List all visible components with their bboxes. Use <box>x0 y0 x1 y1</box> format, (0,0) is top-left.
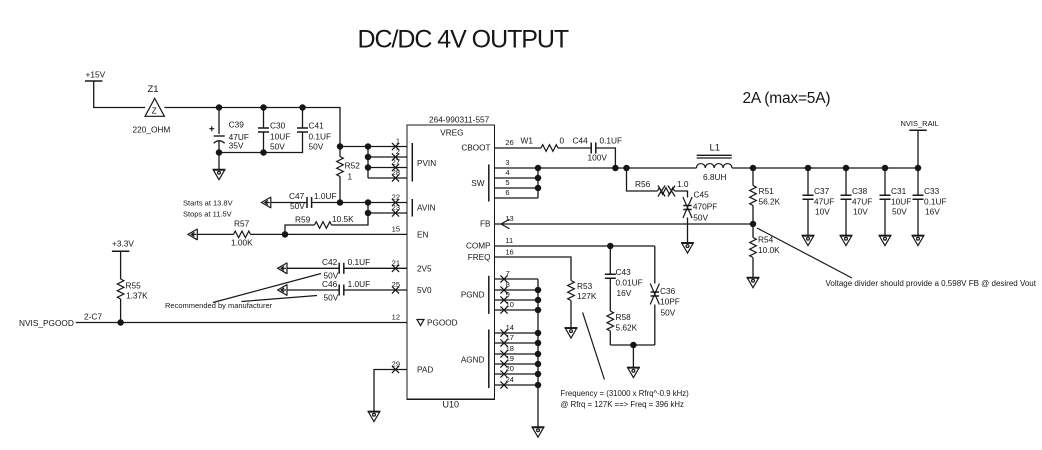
svg-text:50V: 50V <box>270 142 285 152</box>
junction R52 bottom <box>337 199 344 206</box>
svg-text:50V: 50V <box>693 213 708 223</box>
wire AVIN bus <box>332 203 369 226</box>
svg-text:C31: C31 <box>891 186 907 196</box>
svg-text:C39: C39 <box>229 120 245 130</box>
svg-text:C38: C38 <box>852 186 868 196</box>
svg-text:R53: R53 <box>577 281 593 291</box>
svg-text:R56: R56 <box>635 179 651 189</box>
svg-text:2: 2 <box>396 147 400 156</box>
wire C37 top leg <box>807 168 809 195</box>
pin group bar PGND <box>488 276 490 314</box>
svg-text:6: 6 <box>505 188 509 197</box>
pin group bar SW <box>488 165 490 202</box>
svg-text:24: 24 <box>506 375 514 384</box>
capacitor C30 <box>258 128 269 132</box>
junction C38 top <box>843 165 850 172</box>
wire comp bottom bus <box>610 344 655 346</box>
wire R54 to ground <box>752 258 754 278</box>
svg-text:1: 1 <box>348 172 353 182</box>
svg-text:SW: SW <box>471 179 484 188</box>
port arrow C42 row <box>278 263 287 274</box>
svg-text:264-990311-557: 264-990311-557 <box>429 115 490 125</box>
wire C30 leg top <box>263 108 265 129</box>
wire C45 to ground <box>687 218 689 243</box>
junction SW bus pin5 <box>535 185 542 192</box>
wire R58 to bottom bus <box>609 331 611 345</box>
wire C39 to ground <box>218 153 220 170</box>
svg-text:PVIN: PVIN <box>417 159 436 168</box>
svg-text:10.0K: 10.0K <box>758 245 780 255</box>
wire comp bus to ground <box>632 345 634 367</box>
svg-text:0.1UF: 0.1UF <box>348 257 371 267</box>
svg-text:10V: 10V <box>853 207 868 217</box>
capacitor C36 (DNI) <box>650 284 659 305</box>
no-connect X pin10 <box>500 306 507 313</box>
svg-text:6.8UH: 6.8UH <box>703 172 727 182</box>
pointer line voltage divider <box>757 228 852 278</box>
svg-text:56.2K: 56.2K <box>759 197 781 207</box>
svg-text:C43: C43 <box>616 267 632 277</box>
wire R59 to EN <box>285 225 315 234</box>
wire SW to R56 <box>627 168 658 191</box>
svg-text:1: 1 <box>396 137 400 146</box>
svg-text:EN: EN <box>417 231 428 240</box>
no-connect X pin9 <box>500 296 507 303</box>
svg-text:12: 12 <box>392 313 400 322</box>
svg-text:R59: R59 <box>295 215 311 225</box>
wire R52 bottom to AVIN row <box>339 177 341 203</box>
svg-text:16: 16 <box>505 247 513 256</box>
no-connect X pin25 <box>392 286 399 293</box>
capacitor C39 (polarized) <box>209 126 224 143</box>
junction gnd bus pin10 <box>535 307 542 314</box>
svg-text:50V: 50V <box>290 201 305 211</box>
svg-text:35V: 35V <box>229 141 244 151</box>
wire R56 to C45 <box>675 191 688 198</box>
svg-text:Frequency = (31000 x Rfrq^-0.9: Frequency = (31000 x Rfrq^-0.9 kHz) <box>561 389 690 398</box>
no-connect X pin17 <box>500 339 507 346</box>
ground below PAD <box>368 411 381 421</box>
svg-text:10UF: 10UF <box>891 197 911 207</box>
wire C39 leg top <box>218 108 220 135</box>
svg-text:@ Rfrq = 127K ==> Freq = 396 k: @ Rfrq = 127K ==> Freq = 396 kHz <box>561 400 685 409</box>
no-connect X pin19 <box>500 360 507 367</box>
svg-text:C46: C46 <box>322 279 338 289</box>
port arrow EN row <box>188 229 197 240</box>
svg-text:PAD: PAD <box>417 366 433 375</box>
svg-text:47UF: 47UF <box>814 197 834 207</box>
svg-text:47UF: 47UF <box>852 197 872 207</box>
svg-text:11: 11 <box>505 236 513 245</box>
svg-text:470PF: 470PF <box>693 202 717 212</box>
wire gnd bus <box>537 279 539 427</box>
ground below R53 <box>565 328 578 338</box>
wire R52 top leg <box>339 147 341 157</box>
wire C30 leg bottom <box>263 132 265 153</box>
capacitor C33 <box>913 195 924 199</box>
svg-text:19: 19 <box>506 354 514 363</box>
no-connect X pin23 <box>392 209 399 216</box>
port arrow C47 row <box>262 197 271 208</box>
capacitor C43 <box>605 274 616 278</box>
wire NVIS_PGOOD to pin12 <box>76 322 407 324</box>
svg-text:5.62K: 5.62K <box>616 323 638 333</box>
capacitor C46 <box>339 285 344 296</box>
wire C42 to pin21 <box>344 267 407 269</box>
svg-text:15: 15 <box>392 225 400 234</box>
wire pin28 row <box>368 177 407 179</box>
no-connect X pin21 <box>392 265 399 272</box>
svg-text:0.1UF: 0.1UF <box>924 197 947 207</box>
wire FB row <box>495 223 754 225</box>
svg-text:NVIS_PGOOD: NVIS_PGOOD <box>19 318 74 328</box>
svg-text:C41: C41 <box>309 121 325 131</box>
wire C33 top leg <box>917 168 919 195</box>
junction C30 bottom <box>260 149 267 156</box>
svg-text:COMP: COMP <box>466 242 491 251</box>
ground below C38 <box>840 235 853 245</box>
svg-text:10.5K: 10.5K <box>332 214 354 224</box>
svg-text:3: 3 <box>505 158 509 167</box>
wire L1 to NVIS_RAIL <box>732 167 918 169</box>
junction comp ground <box>630 342 637 349</box>
ground below C39 <box>213 170 226 180</box>
wire pin7 row <box>495 278 539 280</box>
svg-text:Starts at 13.8V: Starts at 13.8V <box>183 199 233 208</box>
svg-text:8: 8 <box>506 280 510 289</box>
svg-text:23: 23 <box>392 203 400 212</box>
wire pin24 row <box>495 384 539 386</box>
wire C41 leg top <box>302 108 304 129</box>
svg-text:C42: C42 <box>322 257 338 267</box>
svg-text:14: 14 <box>506 323 514 332</box>
junction R52 top pin1 row <box>337 143 344 150</box>
power symbol NVIS_RAIL <box>909 129 926 131</box>
pointer line to C46 <box>242 296 318 302</box>
junction C30 top <box>260 104 267 111</box>
svg-text:2-C7: 2-C7 <box>84 312 102 322</box>
capacitor C41 <box>297 128 308 132</box>
svg-text:L1: L1 <box>710 143 721 154</box>
wire pin10 row <box>495 309 539 311</box>
svg-text:10PF: 10PF <box>660 297 680 307</box>
wire R54 top leg <box>752 224 754 238</box>
svg-text:7: 7 <box>506 269 510 278</box>
wire pin17 row <box>495 342 539 344</box>
resistor R55 <box>117 279 124 299</box>
svg-text:W1: W1 <box>521 136 534 146</box>
pin group bar AGND <box>488 330 490 389</box>
svg-text:R52: R52 <box>345 161 361 171</box>
svg-text:Stops at 11.5V: Stops at 11.5V <box>183 210 232 219</box>
wire C31 top leg <box>884 168 886 195</box>
no-connect X pin28 <box>392 174 399 181</box>
ground below compensation <box>627 367 640 377</box>
junction FB node <box>750 221 757 228</box>
wire R53 to ground <box>570 301 572 328</box>
no-connect X pin29 <box>392 366 399 373</box>
op-amp U10 regulator IC box <box>407 125 495 399</box>
capacitor C47 <box>307 197 312 208</box>
svg-text:PGOOD: PGOOD <box>427 319 458 328</box>
wire port to C47 <box>271 202 307 204</box>
wire C36 to bottom bus <box>654 305 656 346</box>
junction gnd bus pin17 <box>535 340 542 347</box>
wire C36 column <box>654 246 656 284</box>
junction C31 top <box>882 165 889 172</box>
svg-text:2V5: 2V5 <box>417 264 432 273</box>
svg-text:16V: 16V <box>617 288 632 298</box>
svg-text:1.0UF: 1.0UF <box>348 279 371 289</box>
junction R55 bottom <box>117 319 124 326</box>
wire pin6 row <box>495 197 539 199</box>
svg-text:+15V: +15V <box>86 70 106 80</box>
ground below C33 <box>912 235 925 245</box>
wire port to C42 <box>287 267 339 269</box>
svg-text:AGND: AGND <box>461 356 485 365</box>
resistor R53 <box>568 281 575 301</box>
resistor R59 <box>315 222 332 229</box>
svg-text:10: 10 <box>506 300 514 309</box>
wire PVIN bus <box>367 147 369 179</box>
svg-text:4: 4 <box>505 168 509 177</box>
resistor R52 <box>337 157 344 177</box>
svg-text:Z1: Z1 <box>148 84 159 95</box>
svg-text:+3.3V: +3.3V <box>112 239 134 249</box>
junction C41 top <box>299 104 306 111</box>
svg-text:NVIS_RAIL: NVIS_RAIL <box>901 119 939 128</box>
svg-text:0: 0 <box>560 136 565 146</box>
wire port to C46 <box>287 289 339 291</box>
svg-text:1.00K: 1.00K <box>231 238 253 248</box>
wire pin3 SW rail <box>495 167 697 169</box>
resistor R58 <box>607 311 614 331</box>
no-connect X pin20 <box>500 370 507 377</box>
svg-text:17: 17 <box>506 333 514 342</box>
junction C33 top <box>915 165 922 172</box>
ground below C45 <box>681 243 694 253</box>
port arrow C46 row <box>278 284 287 295</box>
svg-text:U10: U10 <box>443 400 460 410</box>
svg-text:R57: R57 <box>234 219 250 229</box>
wire pin9 row <box>495 299 539 301</box>
capacitor C45 (DNI) <box>683 197 692 218</box>
wire C39 leg bottom <box>218 142 220 153</box>
wire C37 bottom leg <box>807 199 809 235</box>
svg-text:26: 26 <box>505 138 513 147</box>
svg-text:50V: 50V <box>892 207 907 217</box>
svg-text:R58: R58 <box>616 312 632 322</box>
no-connect X pin24 <box>500 381 507 388</box>
svg-text:16V: 16V <box>925 207 940 217</box>
junction gnd bus pin9 <box>535 297 542 304</box>
junction gnd bus pin24 <box>535 382 542 389</box>
junction EN R59 <box>282 231 289 238</box>
resistor R54 <box>750 238 757 258</box>
junction R51 top <box>750 165 757 172</box>
svg-text:2A (max=5A): 2A (max=5A) <box>743 90 831 107</box>
wire pin19 row <box>495 363 539 365</box>
capacitor C31 <box>880 195 891 199</box>
svg-text:C37: C37 <box>814 186 830 196</box>
junction PVIN bus pin1 <box>365 143 372 150</box>
svg-text:Recommended by manufacturer: Recommended by manufacturer <box>165 301 273 310</box>
capacitor C44 <box>591 143 596 154</box>
junction PVIN bus pin27 <box>365 164 372 171</box>
wire C46 to pin25 <box>344 289 407 291</box>
svg-text:5V0: 5V0 <box>417 286 432 295</box>
svg-text:DC/DC 4V OUTPUT: DC/DC 4V OUTPUT <box>358 26 569 54</box>
svg-text:PGND: PGND <box>461 291 485 300</box>
ground below C31 <box>879 235 892 245</box>
svg-text:C36: C36 <box>660 286 676 296</box>
svg-text:R55: R55 <box>126 281 142 291</box>
wire +15V to Z1 <box>94 81 145 108</box>
svg-text:VREG: VREG <box>440 129 463 138</box>
pin group bar PVIN <box>411 143 413 182</box>
resistor W1 <box>541 145 558 152</box>
svg-text:C44: C44 <box>573 136 589 146</box>
ground below gnd bus <box>532 427 545 437</box>
svg-text:FB: FB <box>480 220 491 229</box>
wire +3.3V to R55 <box>120 251 122 279</box>
inductor L1 <box>696 155 732 168</box>
wire pin14 row <box>495 332 539 334</box>
no-connect X pin7 <box>500 275 507 282</box>
wire input cap bottom bus <box>219 132 303 153</box>
wire R57 to pin15 <box>251 233 408 235</box>
svg-text:C33: C33 <box>924 186 940 196</box>
svg-text:50V: 50V <box>324 293 339 303</box>
wire W1 to C44 <box>558 147 591 149</box>
junction SW bus pin3 <box>535 165 542 172</box>
junction gnd bus pin14 <box>535 330 542 337</box>
svg-text:27: 27 <box>392 158 400 167</box>
wire pin18 row <box>495 353 539 355</box>
wire C38 top leg <box>845 168 847 195</box>
wire pin2 row <box>368 156 407 158</box>
svg-text:9: 9 <box>506 290 510 299</box>
wire C44 to SW rail <box>596 148 616 168</box>
junction AVIN bus pin23 <box>365 210 372 217</box>
wire NVIS_RAIL riser <box>917 130 919 168</box>
wire R51 bottom leg <box>752 206 754 225</box>
junction C39 bottom <box>216 149 223 156</box>
ground below R54 <box>747 278 760 288</box>
arrowhead FB pin13 <box>501 219 510 228</box>
svg-text:50V: 50V <box>661 308 676 318</box>
svg-text:CBOOT: CBOOT <box>461 144 490 153</box>
svg-text:1.0: 1.0 <box>677 179 689 189</box>
no-connect X pin2 <box>392 153 399 160</box>
svg-text:22: 22 <box>392 193 400 202</box>
svg-text:Z: Z <box>152 106 157 116</box>
wire pin23 row <box>368 212 407 214</box>
svg-text:5: 5 <box>505 178 509 187</box>
inductor Z1 (220_OHM bead) <box>145 98 164 116</box>
svg-text:21: 21 <box>392 258 400 267</box>
capacitor C38 <box>841 195 852 199</box>
junction gnd bus pin19 <box>535 361 542 368</box>
no-connect X pin1 <box>392 143 399 150</box>
resistor R57 <box>234 231 251 238</box>
svg-text:0.01UF: 0.01UF <box>616 278 643 288</box>
pin name PGOOD with triangle <box>417 319 458 328</box>
svg-text:10UF: 10UF <box>270 132 290 142</box>
junction R56 branch <box>623 165 630 172</box>
no-connect X pin8 <box>500 286 507 293</box>
svg-text:0.1UF: 0.1UF <box>309 132 332 142</box>
junction gnd bus pin8 <box>535 287 542 294</box>
no-connect X pin14 <box>500 329 507 336</box>
junction gnd bus pin20 <box>535 371 542 378</box>
wire C38 bottom leg <box>845 199 847 235</box>
svg-text:20: 20 <box>506 364 514 373</box>
pin group bar AVIN <box>411 199 413 217</box>
wire pin26 to W1 <box>495 147 542 149</box>
junction gnd bus pin18 <box>535 351 542 358</box>
capacitor C37 <box>803 195 814 199</box>
pointer line to C42 <box>213 274 321 303</box>
svg-text:1.0UF: 1.0UF <box>314 191 337 201</box>
wire C43 top leg <box>609 246 611 274</box>
svg-text:C45: C45 <box>694 190 710 200</box>
svg-text:0.1UF: 0.1UF <box>600 136 623 146</box>
wire C31 bottom leg <box>884 199 886 235</box>
wire COMP row <box>495 245 655 247</box>
svg-text:28: 28 <box>392 168 400 177</box>
svg-text:AVIN: AVIN <box>417 204 436 213</box>
power symbol +15V <box>85 80 102 82</box>
resistor R51 <box>750 186 757 206</box>
svg-text:25: 25 <box>392 280 400 289</box>
wire C47 to pin22 <box>312 202 407 204</box>
junction AVIN bus pin22 <box>365 199 372 206</box>
svg-text:127K: 127K <box>577 291 597 301</box>
wire port to R57 <box>197 233 233 235</box>
svg-text:18: 18 <box>506 344 514 353</box>
no-connect X pin27 <box>392 164 399 171</box>
svg-text:220_OHM: 220_OHM <box>133 125 171 135</box>
wire pin5 row <box>495 187 539 189</box>
wire pin8 row <box>495 289 539 291</box>
svg-text:29: 29 <box>392 360 400 369</box>
junction C37 top <box>805 165 812 172</box>
junction SW bus pin4 <box>535 175 542 182</box>
svg-text:1.37K: 1.37K <box>126 291 148 301</box>
wire pin1 row <box>340 146 407 148</box>
wire R51 top leg <box>752 168 754 186</box>
junction C44 drop <box>612 165 619 172</box>
wire C43 to R58 <box>609 278 611 311</box>
wire pin20 row <box>495 373 539 375</box>
svg-text:50V: 50V <box>309 142 324 152</box>
wire pin27 row <box>368 167 407 169</box>
svg-text:R51: R51 <box>759 186 775 196</box>
power symbol +3.3V <box>112 250 129 252</box>
wire pin29 to ground <box>374 370 407 412</box>
wire C33 bottom leg <box>917 199 919 235</box>
svg-text:100V: 100V <box>588 153 608 163</box>
no-connect X pin18 <box>500 350 507 357</box>
wire FREQ row <box>495 257 572 281</box>
svg-text:Voltage divider should provide: Voltage divider should provide a 0.598V … <box>826 279 1037 288</box>
junction C39 top <box>216 104 223 111</box>
wire Z1 to input caps rail <box>164 108 340 147</box>
wire R55 to PGOOD row <box>120 299 122 323</box>
pointer line frequency note <box>583 312 605 379</box>
svg-text:FREQ: FREQ <box>468 253 491 262</box>
